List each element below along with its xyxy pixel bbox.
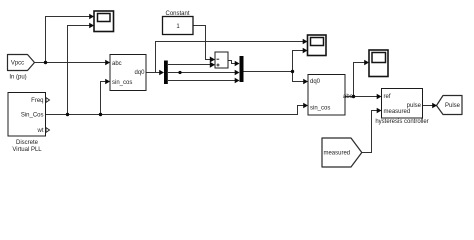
- svg-text:ref: ref: [384, 94, 391, 100]
- svg-text:pulse: pulse: [407, 103, 422, 109]
- svg-text:dq0: dq0: [134, 70, 145, 76]
- svg-text:Discrete: Discrete: [16, 140, 39, 146]
- svg-text:sin_cos: sin_cos: [112, 80, 132, 86]
- svg-text:Sin_Cos: Sin_Cos: [21, 113, 44, 119]
- svg-text:In (pu): In (pu): [9, 75, 26, 81]
- svg-text:Vpcc: Vpcc: [11, 61, 24, 67]
- svg-text:sin_cos: sin_cos: [310, 105, 330, 111]
- svg-text:hysteresis controller: hysteresis controller: [375, 119, 428, 125]
- svg-text:Constant: Constant: [165, 11, 189, 17]
- svg-text:Freq: Freq: [31, 98, 43, 104]
- svg-text:measured: measured: [323, 151, 350, 157]
- svg-text:abc: abc: [343, 94, 353, 100]
- svg-text:Pulse: Pulse: [445, 103, 461, 109]
- svg-text:abc: abc: [112, 61, 122, 67]
- svg-text:wt: wt: [37, 128, 44, 134]
- svg-text:dq0: dq0: [310, 79, 321, 85]
- svg-text:Virtual PLL: Virtual PLL: [12, 147, 42, 153]
- svg-text:measured: measured: [384, 109, 411, 115]
